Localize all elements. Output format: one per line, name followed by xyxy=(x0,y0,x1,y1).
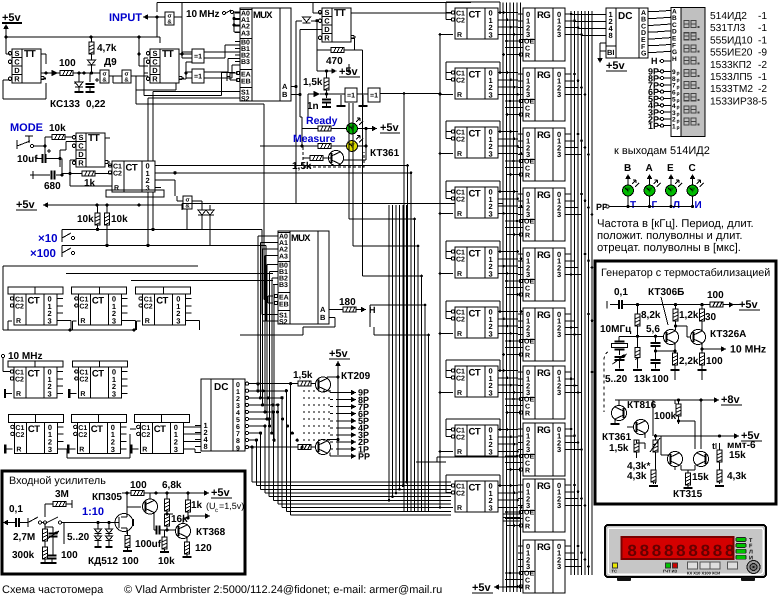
svg-text:CT: CT xyxy=(469,189,481,200)
svg-text:10: 10 xyxy=(186,9,198,20)
svg-text:C: C xyxy=(525,106,530,113)
svg-text:КТ315: КТ315 xyxy=(673,489,703,500)
svg-text:C1: C1 xyxy=(456,130,465,137)
wire CT prescaler 3 out xyxy=(137,320,200,330)
svg-text:C2: C2 xyxy=(456,376,465,383)
label 5..20 gen xyxy=(605,374,628,385)
svg-text:-1: -1 xyxy=(758,72,767,83)
svg-text:C1: C1 xyxy=(15,425,24,432)
instrument case xyxy=(605,525,766,577)
svg-text:CT: CT xyxy=(154,424,166,435)
svg-text:CT: CT xyxy=(469,10,481,21)
wire TT1 feedback xyxy=(3,37,46,99)
resistor 1,5k base xyxy=(292,156,332,173)
wire CT column 7 cap xyxy=(439,360,502,394)
svg-text:C1: C1 xyxy=(456,250,465,257)
svg-text:C: C xyxy=(689,163,696,174)
wire nested bus bottom xyxy=(252,482,520,521)
wire B2 to TT2 xyxy=(131,76,176,90)
resistor 1,5k KT209a xyxy=(283,370,316,386)
svg-text:EA: EA xyxy=(279,295,289,302)
svg-text:CT: CT xyxy=(92,296,104,307)
svg-text:100: 100 xyxy=(707,290,724,301)
power +5v mid xyxy=(327,64,361,78)
svg-text:R: R xyxy=(457,449,462,456)
svg-text:8: 8 xyxy=(627,543,637,562)
LED green Ready xyxy=(347,118,364,134)
svg-text:3: 3 xyxy=(489,149,493,158)
svg-text:3: 3 xyxy=(48,316,52,325)
svg-text:G: G xyxy=(641,51,647,58)
svg-text:4: 4 xyxy=(236,410,240,417)
counter CT div row3 1 xyxy=(8,414,63,453)
svg-text:5..20: 5..20 xyxy=(67,532,90,543)
svg-text:+5v: +5v xyxy=(16,199,36,211)
label k vyhodam xyxy=(614,145,710,157)
box input amplifier xyxy=(2,471,245,574)
counter CT column 7 xyxy=(451,366,504,397)
svg-text:3: 3 xyxy=(146,183,150,192)
svg-text:C: C xyxy=(525,517,530,524)
label MODE xyxy=(10,122,43,134)
wire CT column 5 cap xyxy=(439,241,502,275)
svg-text:p: p xyxy=(677,112,680,118)
svg-text:100uf: 100uf xyxy=(135,539,162,550)
svg-text:10k: 10k xyxy=(49,123,66,134)
wire bundle D to DC1 xyxy=(571,15,600,36)
svg-text:8,2k: 8,2k xyxy=(641,310,661,321)
svg-text:300k: 300k xyxy=(12,550,35,561)
flip-flop TT3 xyxy=(318,8,356,43)
svg-text:C: C xyxy=(525,226,530,233)
svg-text:120: 120 xyxy=(195,543,212,554)
wire CT column 1 cap xyxy=(439,2,502,36)
svg-text:R: R xyxy=(142,446,147,453)
svg-text:CT: CT xyxy=(469,249,481,260)
svg-text:8: 8 xyxy=(676,543,686,562)
resistor 180 xyxy=(329,297,376,315)
instrument display xyxy=(622,537,735,562)
counter CT timebase 1 xyxy=(8,361,63,398)
svg-text:1k: 1k xyxy=(84,178,96,189)
svg-text:TT: TT xyxy=(24,49,36,60)
counter CT column 3 xyxy=(451,127,504,158)
svg-text:CT: CT xyxy=(156,296,168,307)
svg-text:R: R xyxy=(457,32,462,39)
resistor 15k mid xyxy=(684,472,710,488)
switch 1:10 xyxy=(28,506,104,540)
svg-text:16k: 16k xyxy=(171,514,188,525)
svg-text:R: R xyxy=(16,318,21,325)
svg-text:C1: C1 xyxy=(15,297,24,304)
display panel 514ID2 xyxy=(671,8,705,137)
svg-text:CT: CT xyxy=(469,427,481,438)
svg-text:Д9: Д9 xyxy=(104,57,117,68)
wire CT prescaler 2 out xyxy=(72,320,135,330)
svg-text:&: & xyxy=(167,19,172,26)
svg-text:3: 3 xyxy=(557,150,561,159)
svg-text:0,22: 0,22 xyxy=(86,99,106,110)
svg-text:R: R xyxy=(525,468,530,475)
svg-text:100k: 100k xyxy=(654,411,677,422)
dashed thermal link xyxy=(604,352,608,412)
svg-text:-1: -1 xyxy=(758,35,767,46)
svg-text:R: R xyxy=(457,331,462,338)
svg-text:TT: TT xyxy=(334,8,346,19)
svg-text:R: R xyxy=(80,391,85,398)
counter CT mode xyxy=(108,161,161,192)
svg-text:3М: 3М xyxy=(55,489,69,500)
wire RG outputs to bundle D xyxy=(570,13,594,568)
resistor 100k gen xyxy=(654,398,681,424)
svg-text:1n: 1n xyxy=(307,101,319,112)
wire EB feed xyxy=(136,90,264,231)
power +5v gen xyxy=(739,299,760,311)
svg-text:ГЧТ ИЗ: ГЧТ ИЗ xyxy=(663,569,678,574)
svg-text:R: R xyxy=(79,446,84,453)
register RG column 8 xyxy=(518,423,571,476)
svg-text:B: B xyxy=(282,90,288,99)
multiplexer MUX2 xyxy=(273,231,334,326)
svg-text:C1: C1 xyxy=(79,370,88,377)
wire long rail y203 xyxy=(182,204,503,211)
svg-text:КТ209: КТ209 xyxy=(341,371,371,382)
power +5v top-left xyxy=(2,12,22,37)
svg-text:3: 3 xyxy=(557,30,561,39)
svg-text:3: 3 xyxy=(489,90,493,99)
svg-text:RG: RG xyxy=(537,368,550,379)
label PP switch xyxy=(596,202,609,212)
svg-text:R: R xyxy=(78,158,84,167)
svg-text:C1: C1 xyxy=(141,425,150,432)
svg-text:p: p xyxy=(677,125,680,131)
svg-text:R: R xyxy=(525,585,530,592)
wire MUX1 outputs to TT3 xyxy=(291,21,322,96)
svg-text:0: 0 xyxy=(236,382,240,389)
wire TT3 outputs xyxy=(351,13,452,50)
svg-text:p: p xyxy=(677,84,680,90)
svg-text:&: & xyxy=(102,77,107,84)
svg-text:1533ИР38: 1533ИР38 xyxy=(710,96,758,107)
trimmer cap gen xyxy=(613,354,627,370)
transistor KT326A xyxy=(691,329,747,380)
svg-text:R: R xyxy=(457,151,462,158)
wire CT column 2 cap xyxy=(439,62,502,96)
svg-text:C: C xyxy=(525,461,530,468)
svg-text:8: 8 xyxy=(639,543,649,562)
resistor 100 xyxy=(59,58,76,76)
wire CT mode outputs xyxy=(161,166,411,197)
note frequency text xyxy=(597,218,754,254)
differential pair KT315 xyxy=(668,452,709,501)
svg-text:КТ326А: КТ326А xyxy=(710,329,746,340)
svg-text:CT: CT xyxy=(469,129,481,140)
svg-text:3: 3 xyxy=(557,501,561,510)
svg-text:1,2k: 1,2k xyxy=(679,310,699,321)
LED indicators BAEC xyxy=(609,163,704,211)
svg-text:10 MHz: 10 MHz xyxy=(8,351,42,362)
register RG column 5 xyxy=(518,248,571,301)
resistor 30 xyxy=(700,303,717,329)
resistor 1k xyxy=(62,159,108,190)
svg-text:1533КП2: 1533КП2 xyxy=(710,60,752,71)
capacitors 100 gen xyxy=(651,336,677,385)
label amplifier title xyxy=(9,475,106,487)
wire MUX2 EA EB xyxy=(264,231,273,303)
svg-text:1533ЛП5: 1533ЛП5 xyxy=(710,72,753,83)
wire CT prescaler 1 out xyxy=(8,320,71,330)
svg-text:КТ816: КТ816 xyxy=(627,400,657,411)
svg-text:-1: -1 xyxy=(758,23,767,34)
svg-text:×100: ×100 xyxy=(30,248,56,260)
svg-text:+5v: +5v xyxy=(472,582,492,594)
trimmer cap amp xyxy=(45,527,59,556)
svg-text:6,8k: 6,8k xyxy=(162,480,182,491)
svg-text:R: R xyxy=(525,53,530,60)
wire CT timebase 1 gnd xyxy=(5,389,12,398)
svg-text:8: 8 xyxy=(664,543,674,562)
svg-text:R: R xyxy=(457,390,462,397)
svg-text:3: 3 xyxy=(557,445,561,454)
svg-text:4,7k: 4,7k xyxy=(97,43,117,54)
svg-text:TT: TT xyxy=(162,49,174,60)
diodes KD512 xyxy=(88,521,118,567)
svg-text:3: 3 xyxy=(111,445,115,454)
svg-text:RG: RG xyxy=(537,190,550,201)
wire CT row3 2 gnd xyxy=(68,444,75,453)
caption title xyxy=(2,584,104,596)
svg-text:Г: Г xyxy=(652,200,658,211)
svg-text:B3: B3 xyxy=(241,59,250,66)
transistor Q1 amp xyxy=(143,493,158,517)
power +5v KT209 xyxy=(329,348,350,455)
svg-text:© Vlad Armbrister 2:5000/112.: © Vlad Armbrister 2:5000/112.24@fidonet;… xyxy=(124,584,442,596)
wire RG control pins xyxy=(502,40,521,588)
svg-text:C2: C2 xyxy=(79,377,88,384)
svg-text:3: 3 xyxy=(112,389,116,398)
buffer gate rail xyxy=(183,196,192,229)
svg-text:отрецат. полуволны в [мкс].: отрецат. полуволны в [мкс]. xyxy=(597,242,741,254)
svg-text:3: 3 xyxy=(48,389,52,398)
svg-text:×10: ×10 xyxy=(38,233,58,245)
svg-text:C1: C1 xyxy=(456,190,465,197)
wire MUX1 A inputs xyxy=(232,12,240,32)
capacitor 10uf xyxy=(17,142,76,168)
svg-text:C2: C2 xyxy=(144,304,153,311)
zener KC133 xyxy=(50,73,84,110)
gate =1 a xyxy=(192,49,204,63)
power +5v amp xyxy=(211,487,232,499)
svg-text:15k: 15k xyxy=(729,450,746,461)
svg-text:EB: EB xyxy=(241,79,251,86)
svg-text:1,5k: 1,5k xyxy=(609,443,629,454)
register RG column 3 xyxy=(518,128,571,181)
svg-text:4,3k: 4,3k xyxy=(627,471,647,482)
svg-text:R: R xyxy=(525,113,530,120)
flip-flop TT4 xyxy=(72,133,110,168)
svg-text:p: p xyxy=(677,71,680,77)
resistor 10k a xyxy=(77,205,100,231)
svg-text:5..20: 5..20 xyxy=(605,374,628,385)
caption author xyxy=(124,584,442,596)
wire KP305 drain xyxy=(125,491,141,511)
resistor 470 xyxy=(326,48,362,68)
label 10MHz row xyxy=(1,351,42,372)
svg-text:-9: -9 xyxy=(758,48,767,59)
svg-text:10k: 10k xyxy=(111,214,128,225)
counter CT prescaler 2 xyxy=(71,287,127,325)
counter CT prescaler 3 xyxy=(136,287,192,325)
svg-text:t: t xyxy=(712,441,715,451)
svg-text:1P: 1P xyxy=(648,121,659,131)
svg-text:CT: CT xyxy=(28,369,40,380)
svg-text:R: R xyxy=(525,524,530,531)
counter CT div row3 3 xyxy=(134,414,189,453)
wire DC1 BI +5v xyxy=(597,43,627,72)
diode pulse xyxy=(308,91,327,117)
svg-text:S2: S2 xyxy=(279,319,288,326)
svg-text:C: C xyxy=(525,286,530,293)
transistor KT361 ready xyxy=(329,148,400,166)
svg-text:CT: CT xyxy=(28,296,40,307)
counter CT timebase 2 xyxy=(72,361,127,398)
decoder DC2 555ID10 xyxy=(195,379,251,452)
box generator xyxy=(595,261,776,504)
svg-text:R: R xyxy=(152,74,158,83)
svg-text:555ИД10: 555ИД10 xyxy=(710,35,753,46)
svg-text:+5v: +5v xyxy=(741,430,761,442)
svg-text:100: 100 xyxy=(130,480,147,491)
capacitor 680 xyxy=(30,171,64,193)
capacitor 1n xyxy=(307,94,331,112)
wire CT to RG rows xyxy=(502,11,522,509)
svg-text:8: 8 xyxy=(236,438,240,445)
wire MUX2 inputs xyxy=(256,236,275,442)
svg-text:C2: C2 xyxy=(456,257,465,264)
svg-text:R: R xyxy=(525,233,530,240)
wire bundle B staircase xyxy=(349,50,430,511)
svg-text:3: 3 xyxy=(48,445,52,454)
counter CT column 6 xyxy=(451,307,504,338)
svg-text:8: 8 xyxy=(609,31,613,40)
svg-text:CT: CT xyxy=(469,309,481,320)
wire bundle C vertical xyxy=(503,3,521,593)
flip-flop TT2 xyxy=(146,49,184,84)
svg-text:R: R xyxy=(525,353,530,360)
svg-text:=1: =1 xyxy=(370,93,378,100)
svg-text:1k: 1k xyxy=(191,500,203,511)
svg-text:CT: CT xyxy=(469,483,481,494)
svg-text:3: 3 xyxy=(489,388,493,397)
svg-text:R: R xyxy=(324,33,330,42)
svg-text:3: 3 xyxy=(489,503,493,512)
svg-text:положит. полуволны и длит.: положит. полуволны и длит. xyxy=(597,230,743,242)
thermistor gen xyxy=(650,434,660,484)
gate =1 c xyxy=(327,88,358,106)
buffer gate input xyxy=(155,12,182,37)
svg-text:3: 3 xyxy=(557,330,561,339)
label H pin xyxy=(651,56,671,66)
svg-text:CT: CT xyxy=(126,163,138,174)
svg-text:p: p xyxy=(677,118,680,124)
svg-text:R: R xyxy=(16,391,21,398)
gate =1 d xyxy=(357,88,440,106)
svg-text:C1: C1 xyxy=(456,369,465,376)
wire MUX2 out B xyxy=(240,318,335,336)
capacitor 100uf xyxy=(135,517,169,550)
resistor 3M xyxy=(45,489,72,517)
svg-text:КТ361: КТ361 xyxy=(602,432,632,443)
resistor 2,2k xyxy=(671,353,699,370)
resistor 10k amp xyxy=(158,530,175,567)
svg-text:RG: RG xyxy=(537,70,550,81)
label 10MHz top xyxy=(186,9,234,20)
svg-text:R: R xyxy=(457,211,462,218)
svg-text:c: c xyxy=(215,508,218,514)
svg-text:A: A xyxy=(646,163,653,174)
resistor 300k xyxy=(12,547,50,563)
svg-text:1533ТМ2: 1533ТМ2 xyxy=(710,84,753,95)
svg-text:13k: 13k xyxy=(634,374,651,385)
svg-text:MUX: MUX xyxy=(291,233,311,244)
svg-text:C1: C1 xyxy=(456,484,465,491)
wire amp signal xyxy=(64,522,115,524)
svg-text:Схема частотомера: Схема частотомера xyxy=(2,584,104,596)
svg-text:КП305: КП305 xyxy=(92,492,122,503)
label Ready xyxy=(306,115,338,127)
svg-text:3: 3 xyxy=(557,562,561,571)
svg-text:0,1: 0,1 xyxy=(9,504,23,515)
svg-text:R: R xyxy=(525,411,530,418)
svg-text:3: 3 xyxy=(557,90,561,99)
labels 9P-1P pins xyxy=(648,67,671,131)
svg-text:INPUT: INPUT xyxy=(109,12,142,24)
buffer gate B2 xyxy=(122,70,131,84)
svg-text:1,5k: 1,5k xyxy=(292,161,312,172)
svg-text:C2: C2 xyxy=(456,78,465,85)
gate =1 b xyxy=(192,69,204,83)
svg-text:100: 100 xyxy=(122,556,139,567)
instrument feet xyxy=(617,577,755,581)
resistor 4,7k xyxy=(89,37,117,60)
resistor Measure xyxy=(260,144,346,149)
wire CT R bus vertical xyxy=(439,34,442,507)
svg-text:A3: A3 xyxy=(279,253,288,260)
buffer gate B1 xyxy=(100,70,109,84)
resistor 100 gen top xyxy=(707,290,734,308)
label KT306B xyxy=(648,287,684,325)
svg-text:Ready: Ready xyxy=(306,115,338,127)
resistor 1,5k vert xyxy=(303,71,329,96)
register RG column 6 xyxy=(518,308,571,361)
svg-text:3: 3 xyxy=(489,269,493,278)
wire TT2 connections xyxy=(137,49,192,79)
counter CT column 8 xyxy=(451,425,504,456)
wire CT column 8 cap xyxy=(439,419,502,453)
svg-text:DC: DC xyxy=(214,382,228,393)
svg-text:MHz: MHz xyxy=(199,9,220,20)
svg-text:-2: -2 xyxy=(758,84,767,95)
switch x100 xyxy=(30,248,75,260)
transistor KT209a xyxy=(316,371,371,393)
svg-text:p: p xyxy=(677,91,680,97)
label 10MGc xyxy=(600,324,632,335)
svg-text:BI: BI xyxy=(607,48,615,57)
svg-text:514ИД2: 514ИД2 xyxy=(710,11,747,22)
resistor 1,5k gen xyxy=(609,440,639,458)
wire CT column 6 cap xyxy=(439,301,502,335)
svg-text:C1: C1 xyxy=(456,11,465,18)
